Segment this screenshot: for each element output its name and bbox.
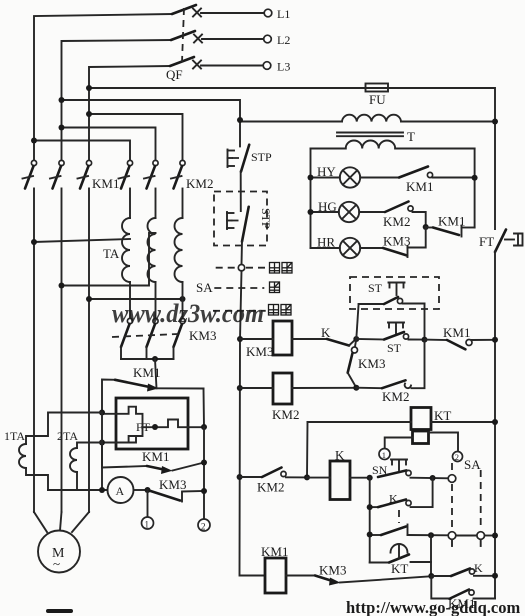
svg-text:ST: ST <box>368 281 383 295</box>
node KT row on right rail <box>492 419 498 425</box>
pushbutton STP (NC) upper <box>228 145 273 211</box>
svg-text:KM1: KM1 <box>92 176 119 191</box>
node KM1-NC left <box>423 224 429 230</box>
svg-text:KM3: KM3 <box>319 563 346 578</box>
svg-text:KM1: KM1 <box>133 365 160 380</box>
node FT box right exit <box>201 424 207 430</box>
relay coil KM2 <box>240 373 356 422</box>
current transformer TA coil 1 <box>122 218 130 282</box>
wire phase2 tap to TA2 <box>62 233 156 286</box>
wire L3 feeder from QF pole3 to left rail <box>89 66 170 161</box>
wire left control rail <box>240 271 266 576</box>
node HY on lamp rail <box>308 175 314 181</box>
transformer T secondary winding <box>311 141 475 149</box>
terminal circled 1 (right) with KT box2 wire <box>379 438 413 461</box>
contactor KM1 main pole 1 <box>23 160 37 512</box>
wire secondary right drop <box>474 149 476 228</box>
node row535 on right rail <box>492 533 498 539</box>
contact K (NO) below SN <box>370 492 411 524</box>
svg-text:T: T <box>407 129 415 144</box>
node SN row right branch <box>430 475 436 481</box>
contact K (NO) row1 <box>292 325 356 346</box>
svg-text:1: 1 <box>382 450 386 460</box>
wire phase1 tap to TA1 <box>34 239 130 242</box>
node TA3 column y299 <box>180 296 186 302</box>
selector SA row manual <box>213 305 291 316</box>
terminal circled 2 (right) with KT box2 wire <box>429 433 482 473</box>
wire aux rail down <box>369 478 371 563</box>
thermal relay FT heater box <box>102 398 204 449</box>
ammeter A <box>108 477 134 503</box>
svg-text:K: K <box>474 561 483 575</box>
svg-text:1TA: 1TA <box>4 429 25 443</box>
contactor KM2 main pole 1 <box>119 160 133 218</box>
wire lamp feed rail <box>310 149 312 249</box>
node control rail row2 <box>237 385 243 391</box>
wire right metering rail <box>203 427 205 519</box>
pushbutton ST (NO) upper in box <box>356 281 424 340</box>
svg-text:KM3: KM3 <box>246 344 273 359</box>
contact KM1 (NO) parallel bottom <box>431 576 495 611</box>
current transformer 1TA secondary <box>4 413 102 491</box>
node row1 right (ST branch right) <box>422 337 428 343</box>
node control rail KM2 row <box>237 474 243 480</box>
node phase3 tap y299 <box>86 296 92 302</box>
scan artifact bottom-left <box>46 609 73 613</box>
node phase1 tap y242 <box>31 239 37 245</box>
terminal L3 <box>263 62 271 70</box>
svg-text:KT: KT <box>391 561 408 576</box>
pushbutton ST (NO) lower on row1 <box>356 323 424 356</box>
wire KM3 merge down to FT row <box>155 359 157 388</box>
lamp HR <box>311 235 361 259</box>
contact KM1 (NO) FT bypass bottom <box>102 443 204 475</box>
svg-text:L3: L3 <box>277 60 290 74</box>
node SN row left <box>367 475 373 481</box>
contact KM3 (NO) bottom row <box>315 563 431 586</box>
svg-text:TA: TA <box>103 246 120 261</box>
svg-text:KM2: KM2 <box>272 407 299 422</box>
svg-text:FU: FU <box>369 92 386 107</box>
contact KM2 (NC) row2 <box>356 340 424 404</box>
svg-text:KM1: KM1 <box>443 325 470 340</box>
node row1 mid (ST branch left) <box>353 336 359 342</box>
svg-text:~: ~ <box>53 556 60 571</box>
current transformer 2TA secondary <box>57 429 102 490</box>
wire SN branch down to K contact <box>411 478 433 507</box>
contact K (NO) bottom row <box>431 561 495 576</box>
contact KM1 (NO) row1 right <box>425 325 496 349</box>
node KM3 row right <box>201 488 207 494</box>
contactor KM3 pole 1 <box>121 318 133 359</box>
node HY row right <box>472 175 478 181</box>
node phase3 tap y88 <box>86 85 92 91</box>
wire left metering rail <box>101 413 103 491</box>
contact KM2 (NO) lamp HG row <box>359 202 426 230</box>
svg-text:KM1: KM1 <box>261 544 288 559</box>
svg-text:KM3: KM3 <box>159 477 186 492</box>
wire control bus y=100 from phase2 to STP chain <box>62 100 241 146</box>
wire bus y=127.5 from phase2 to KM2 pole2 <box>62 128 156 161</box>
svg-text:2: 2 <box>455 452 459 462</box>
svg-text:KM3: KM3 <box>383 234 410 249</box>
current transformer TA coil 2 <box>148 218 156 282</box>
contactor KM3 pole 2 <box>147 318 159 359</box>
current transformer TA coil 3 <box>175 218 183 282</box>
node bottom row on right rail <box>492 573 498 579</box>
node HG on lamp rail <box>308 209 314 215</box>
svg-text:KT: KT <box>434 408 451 423</box>
heater element right hump <box>143 420 205 428</box>
svg-text:2TA: 2TA <box>57 429 78 443</box>
svg-text:SA: SA <box>196 280 213 295</box>
wire KM3 merge bus <box>121 358 174 360</box>
node row2 mid <box>353 385 359 391</box>
svg-text:1: 1 <box>145 520 150 530</box>
node primary tap on STP chain <box>237 117 243 123</box>
node phase2 tap y100 <box>59 97 65 103</box>
wire phase3 tap to TA3 column <box>89 298 183 300</box>
svg-text:STP: STP <box>259 208 273 229</box>
fuse FU <box>366 84 389 108</box>
svg-text:KM1: KM1 <box>142 449 169 464</box>
thermal relay FT contact on right rail <box>479 230 523 599</box>
selector SA row stop <box>214 282 279 293</box>
svg-text:SA: SA <box>464 457 481 472</box>
contactor KM2 main pole 3 <box>171 160 185 218</box>
transformer T primary winding <box>240 115 495 122</box>
circuit breaker QF pole 3 <box>170 57 263 69</box>
contactor KM1 main pole 2 <box>50 160 64 512</box>
circuit breaker QF pole 1 <box>172 5 264 17</box>
svg-text:STP: STP <box>251 150 272 164</box>
wire KT feed from KM2 aux <box>306 422 309 477</box>
terminal L1 <box>264 9 272 17</box>
wire TA columns down to KM3 poles <box>129 282 131 319</box>
node phase1 tap y140.5 <box>31 138 37 144</box>
svg-text:KM2: KM2 <box>382 389 409 404</box>
contact KM3 (NO) ammeter row <box>134 477 205 502</box>
contact KM3 (NC) lamp HR row <box>360 227 426 257</box>
svg-text:L1: L1 <box>277 7 290 21</box>
node K coil row left <box>304 474 310 480</box>
node ammeter row left <box>99 487 105 493</box>
relay coil KT (time relay) <box>308 408 496 444</box>
node FT box left bottom <box>99 440 105 446</box>
svg-text:ST: ST <box>387 341 402 355</box>
contactor KM2 main pole 2 <box>144 160 158 218</box>
svg-text:KM2: KM2 <box>383 214 410 229</box>
wire L1 feeder from QF pole1 to left rail <box>34 14 172 161</box>
svg-text:L2: L2 <box>277 33 290 47</box>
node phase2 tap y127.5 <box>59 125 65 131</box>
node row535 left <box>367 532 373 538</box>
wire ammeter row <box>48 489 108 491</box>
node ammeter row mid <box>145 487 151 493</box>
svg-text:KM2: KM2 <box>257 480 284 495</box>
svg-text:KM1: KM1 <box>406 179 433 194</box>
wire L2 feeder from QF pole2 to left rail <box>62 40 172 161</box>
contactor KM3 pole 3 <box>174 318 186 359</box>
svg-text:www.dz3w.com: www.dz3w.com <box>112 299 264 328</box>
relay coil K <box>307 448 370 500</box>
contact KM3 (NC) vertical between row1 and row2 <box>348 339 386 388</box>
selector SA bottom contact top-left <box>448 475 456 483</box>
node K contact row left <box>367 504 373 510</box>
QF linkage (dashed) <box>182 8 184 62</box>
heater element left <box>102 407 143 443</box>
svg-text:http://www.go-gddq.com: http://www.go-gddq.com <box>346 598 520 616</box>
pushbutton SN (NO) row <box>372 460 449 479</box>
node bypass bottom right <box>201 460 207 466</box>
svg-text:KM3: KM3 <box>358 356 385 371</box>
node row535 right <box>428 532 434 538</box>
lamp HG <box>311 199 360 222</box>
node phase2 tap y285.5 <box>59 283 65 289</box>
contact KM1 (NO) FT bypass top <box>102 365 204 427</box>
relay coil KM3 <box>240 321 292 359</box>
node control rail row1 <box>237 336 243 342</box>
node primary right on rail <box>492 119 498 125</box>
KM3 linkage (dashed) <box>112 334 178 337</box>
svg-text:KM3: KM3 <box>189 328 216 343</box>
svg-text:KM2: KM2 <box>186 176 213 191</box>
contact KT (NO delayed) branch <box>370 535 431 576</box>
svg-text:A: A <box>116 484 125 498</box>
contact K (NC) row 535 <box>370 525 449 536</box>
wire bus y=140.5 from phase1 to KM2 pole1 <box>34 141 130 161</box>
terminal circled 2 (left) <box>198 519 210 532</box>
contact KM2 (NO) K-coil row <box>240 468 307 495</box>
node FT box left top <box>99 410 105 416</box>
terminal L2 <box>264 35 272 43</box>
node bottom row branch <box>428 573 434 579</box>
terminal circled 1 (left) <box>142 490 154 530</box>
svg-text:K: K <box>321 325 331 340</box>
node row1 on right rail <box>492 337 498 343</box>
wire control bus y=88 from phase3 to FU and right rail <box>89 87 366 89</box>
dashed enclosure for STP lower <box>214 192 267 246</box>
selector SA bottom columns <box>448 463 495 546</box>
node KM3 merge <box>152 356 158 362</box>
svg-text:K: K <box>335 448 345 463</box>
contact KM1 (NO) lamp HY row <box>360 167 474 195</box>
svg-text:FT: FT <box>479 234 494 249</box>
contactor KM1 main pole 3 <box>78 160 92 512</box>
circuit breaker QF pole 2 <box>171 31 264 43</box>
wire bus y=114 from phase3 to KM2 pole3 <box>89 114 183 161</box>
contact KM1 (NC) lamp section <box>426 214 475 237</box>
motor M <box>34 512 89 573</box>
transformer T core <box>337 132 403 134</box>
selector switch SA contact (auto) <box>216 263 292 274</box>
svg-text:QF: QF <box>166 67 183 82</box>
svg-text:2: 2 <box>201 522 206 532</box>
node phase3 tap y114 <box>86 111 92 117</box>
dashed enclosure for ST upper <box>350 277 439 309</box>
pushbutton STP (NC) lower <box>227 207 273 265</box>
relay coil KM1 <box>261 544 315 593</box>
lamp HY <box>311 164 361 188</box>
